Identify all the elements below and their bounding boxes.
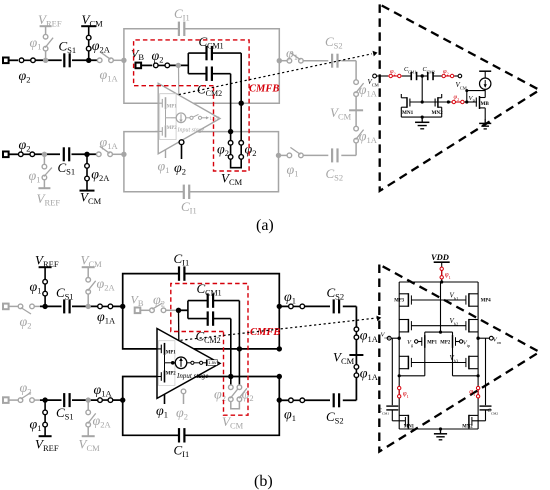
svg-text:MP1: MP1 xyxy=(166,350,176,355)
node on top output (b) xyxy=(237,346,242,351)
switch phi2 gray top input (b) xyxy=(18,304,40,330)
inset transistor MN1 (a) xyxy=(401,94,413,117)
node box edge (b top) xyxy=(120,304,125,309)
inset feedback drop right (b) xyxy=(485,338,487,405)
node Vref junction (a top) xyxy=(43,58,48,63)
node box edge (b bottom) xyxy=(120,397,125,402)
svg-text:MP2: MP2 xyxy=(167,126,177,131)
phi1 stub below op-amp (a) xyxy=(158,150,170,176)
inset Vb2 gate wire (b) xyxy=(411,317,466,327)
inset cascode NMOS left (b) xyxy=(399,356,411,370)
switch phi2 right CMFB (a) xyxy=(239,140,257,160)
svg-text:CMFB: CMFB xyxy=(250,327,280,338)
cap bus left (b) xyxy=(187,301,189,319)
wire CCM2 right drop (a) xyxy=(230,74,232,141)
inset input pair MP1 (b) xyxy=(407,335,438,348)
node CS1 right (b top) xyxy=(86,304,91,309)
op-amp U2 triangle (b) xyxy=(157,329,220,399)
wire CS1 to node (a top) xyxy=(72,59,98,61)
op-amp U1 triangle (a) xyxy=(158,83,220,154)
inset switch phi2 left red closed (a) xyxy=(388,68,402,78)
switch phi2 left CMFB (a) xyxy=(217,140,233,160)
input terminal bottom (a) xyxy=(3,152,18,158)
inset output node right (b) xyxy=(476,336,501,345)
node input (b top) xyxy=(42,304,47,309)
switch phi1A closed (b bottom) xyxy=(94,383,123,402)
inset transistor MN2 (a) xyxy=(432,94,444,117)
inset main wire left (a) xyxy=(368,74,389,87)
VB terminal gray (b) xyxy=(131,293,151,314)
inset source rail and ground (a) xyxy=(401,116,441,129)
node input (a bottom) xyxy=(84,152,89,157)
inset transistor MP3 (b) xyxy=(394,293,411,307)
svg-text:MP3: MP3 xyxy=(394,299,404,304)
node box right edge (a top) xyxy=(277,58,282,63)
capacitor CCM2 (b) xyxy=(188,311,231,345)
Vref source (b top) xyxy=(30,253,59,307)
capacitor CI1 top (b) xyxy=(174,251,190,281)
wire input to CS1 (a) xyxy=(35,59,62,61)
CMFB label (b) xyxy=(250,327,280,338)
zoom detail dashed triangle (b) xyxy=(379,265,539,452)
switch phi2 gray right CMFB (b) xyxy=(237,385,254,403)
capacitor CCM2 (a) xyxy=(188,67,230,99)
Vcm tap via phi2A (a bottom) xyxy=(80,154,111,206)
inset mid junction (a) xyxy=(417,74,428,102)
switch phi1 gray (a right top) xyxy=(286,47,303,64)
integrating capacitor loop box top (b) xyxy=(123,274,280,349)
integrating capacitor loop box bottom (a) xyxy=(124,132,279,192)
inset capacitor CCM1 (a) xyxy=(404,66,417,80)
inset MP2 drain fold (b) xyxy=(453,348,480,378)
inset MB diode wire (a) xyxy=(465,89,485,102)
node box right edge output level (b bottom) xyxy=(277,374,282,379)
zoom leader dotted line (b) xyxy=(181,316,382,341)
switch phi1A gray open (a top) xyxy=(97,52,124,83)
inset top rail (b) xyxy=(399,280,478,283)
svg-text:MP1: MP1 xyxy=(167,105,177,110)
inset feedback drop left (b) xyxy=(391,338,393,405)
wire CCM2 right drop (b) xyxy=(230,319,232,386)
capacitor CS2 (a top) xyxy=(303,34,356,68)
inset gate bus (a) xyxy=(410,100,451,103)
input terminal top (b) xyxy=(3,304,18,310)
svg-text:MP2: MP2 xyxy=(166,371,176,376)
node box edge (a top) xyxy=(121,58,126,63)
inset switch phi1 left red (b) xyxy=(398,386,409,399)
switch phi2 gray left CMFB (b) xyxy=(214,385,238,403)
svg-text:MN1: MN1 xyxy=(402,110,414,116)
node box right edge output level (b top) xyxy=(277,346,282,351)
Vcm return U-wire gray (b) xyxy=(222,402,244,431)
capacitor CS2 (a bottom) xyxy=(303,148,356,182)
svg-text:MN2: MN2 xyxy=(432,110,444,116)
wire corner down (a right) xyxy=(355,61,357,80)
svg-text:(b): (b) xyxy=(254,473,273,490)
switch phi2 bottom input (a) xyxy=(18,138,36,157)
inset current source (a) xyxy=(479,71,491,97)
switch phi1 (b right top) xyxy=(284,290,305,309)
wire CS1 to phi1A (b top) xyxy=(72,305,98,307)
input stage label (a) xyxy=(177,128,205,134)
node on bottom output (a) xyxy=(228,129,233,134)
CMFB dashed red box (b) xyxy=(171,284,248,416)
bias switch in op-amp (b) xyxy=(187,360,218,367)
wire CCM1 right drop (b) xyxy=(238,301,240,386)
inset transistor MP4 (b) xyxy=(466,293,491,307)
inset input pair MP2 (b) xyxy=(440,335,470,348)
switch phi1A (b right upper) xyxy=(354,326,379,344)
Vcm tap (b right) xyxy=(333,340,363,366)
inset MP1 drain fold (b) xyxy=(398,348,425,378)
capacitor CCM1 (a) xyxy=(188,34,241,60)
inset cascode PMOS right (b) xyxy=(466,319,478,333)
inset switch phi1 right red (b) xyxy=(469,386,480,399)
capacitor CI1 bottom (b) xyxy=(174,428,190,459)
capacitor CS2 (b bottom) xyxy=(305,393,357,425)
sub-figure label (b) xyxy=(254,473,273,490)
inset MB ground (a) xyxy=(479,108,491,129)
wire input node to CS1 (b top) xyxy=(40,305,62,307)
inset transistor MN2 (b) xyxy=(462,415,478,430)
Vcm tap gray phi2A (b top) xyxy=(81,253,116,307)
inset Vb1 gate wire (b) xyxy=(411,292,466,302)
inset switch phi2 gate red closed (a) xyxy=(451,94,477,104)
VB terminal (a) xyxy=(131,47,152,69)
inset VDD supply (b) xyxy=(431,252,450,266)
inset Vb3 gate wire (b) xyxy=(411,354,466,364)
capacitor CS1 (b bottom) xyxy=(56,393,74,421)
input stage grouping box (a) xyxy=(160,94,176,140)
switch phi1 gray (a bottom) xyxy=(29,154,52,184)
inset switch phi1 VDD red (b) xyxy=(440,266,451,282)
transistor MP2 in op-amp (a) xyxy=(155,118,177,138)
node input (a top) xyxy=(86,58,91,63)
switch phi1A gray (a right lower) xyxy=(354,126,378,145)
wire down to CS2 (b right) xyxy=(355,378,357,401)
svg-text:MP1: MP1 xyxy=(427,340,437,345)
inset wire right end (a) xyxy=(455,74,467,90)
node CS1 right (b bottom) xyxy=(86,397,91,402)
inset capacitor CCM2 (a) xyxy=(423,66,442,80)
inset switch phi2 right red closed (a) xyxy=(442,68,455,78)
svg-text:MB: MB xyxy=(481,101,490,107)
wire input node to CS1 (b bottom) xyxy=(40,399,62,401)
integrating capacitor loop box top (a) xyxy=(124,29,279,103)
Vcm return U-wire (a) xyxy=(221,159,243,187)
inset transistor MN1 (b) xyxy=(399,415,414,430)
zoom detail dashed triangle (a) xyxy=(380,4,540,191)
capacitor CS2 (b top) xyxy=(305,285,357,313)
integrating capacitor loop box bottom (b) xyxy=(123,377,280,436)
Vref source (b bottom) xyxy=(30,400,59,453)
current source in op-amp (a) xyxy=(171,113,186,123)
cap bus left (a) xyxy=(187,53,189,74)
inset tail wire (b) xyxy=(425,282,453,336)
transistor MP1 in op-amp (a) xyxy=(155,97,177,118)
wire corner down (b right) xyxy=(355,306,357,329)
node VB junction (b) xyxy=(176,308,188,313)
svg-text:1.5V: 1.5V xyxy=(210,117,220,122)
inset capacitor CCM1 (b) xyxy=(379,406,406,421)
switch phi2 VB (a) xyxy=(152,49,171,68)
switch phi1 gray (a right bottom) xyxy=(279,147,304,178)
svg-text:(a): (a) xyxy=(256,217,274,234)
inset bottom rail and ground (b) xyxy=(399,427,478,439)
node VB junction (a) xyxy=(170,63,189,68)
CMFB dashed red box (a) xyxy=(134,40,250,171)
inset capacitor CCM2 (b) xyxy=(472,406,498,421)
inset cascode PMOS left (b) xyxy=(399,319,411,333)
switch phi1A gray (a right upper) xyxy=(354,80,378,99)
sense wire to op-amp input (b) xyxy=(178,311,180,340)
node Vref junction (a bottom) xyxy=(42,152,47,157)
capacitor CS1 (a bottom) xyxy=(58,147,76,176)
inset wire to CCM1 (a) xyxy=(402,75,411,77)
switch phi1A closed (b top) xyxy=(97,304,123,325)
svg-text:VDD: VDD xyxy=(431,252,449,262)
Vcm tap gray phi2A (b bottom) xyxy=(79,400,112,453)
node box edge (a bottom) xyxy=(121,152,126,157)
switch phi1A gray open (a bottom) xyxy=(97,136,124,157)
current source in op-amp (b) xyxy=(171,357,187,369)
svg-text:MP4: MP4 xyxy=(481,299,491,304)
svg-text:MP2: MP2 xyxy=(440,340,450,345)
Vref source gray (a top) xyxy=(38,12,62,35)
inset transistor MB (a) xyxy=(469,95,490,109)
bias switch in op-amp (a) xyxy=(186,114,220,122)
node box right edge input level (b bottom) xyxy=(277,397,282,402)
node box right edge (a bottom) xyxy=(276,153,281,158)
inset right bus (b) xyxy=(477,282,479,429)
capacitor CS1 (a top) xyxy=(59,39,77,68)
wire CCM1 right drop (a) xyxy=(240,53,242,141)
node box right edge input level (b top) xyxy=(277,304,282,309)
inset cascode NMOS right (b) xyxy=(466,356,478,370)
wire out to phi1 (b top) xyxy=(279,305,288,307)
CMFB label (a) xyxy=(249,84,279,95)
node input (b bottom) xyxy=(42,397,47,402)
svg-text:Input stage: Input stage xyxy=(176,372,208,380)
input stage label (b) xyxy=(176,372,208,380)
phi1 terminal below op-amp (b) xyxy=(156,394,168,419)
wire down to CS2 (a right) xyxy=(355,143,357,156)
transistor MP1 in op-amp (b) xyxy=(154,343,176,363)
svg-text:1.5V: 1.5V xyxy=(208,360,217,365)
input terminal bottom (b) xyxy=(3,397,18,403)
capacitor CI1 top (a) xyxy=(174,6,190,36)
wire CS1 to node (a bottom) xyxy=(72,153,98,155)
input terminal top (a) xyxy=(3,58,18,64)
wire out to phi1 (a top) xyxy=(279,60,287,62)
sub-figure label (a) xyxy=(256,217,274,234)
input stage grouping box (b) xyxy=(159,341,175,386)
svg-text:Input stage: Input stage xyxy=(177,128,205,134)
inset left bus (b) xyxy=(398,282,400,429)
phi2 bias terminal below op-amp (a) xyxy=(174,140,186,177)
switch phi1A (b right lower) xyxy=(354,364,379,382)
Vcm tap via phi2A (a top) xyxy=(81,12,111,60)
transistor MP2 in op-amp (b) xyxy=(154,363,176,383)
sense wire to op-amp input (a) xyxy=(178,66,180,95)
Vcm tap (a right) xyxy=(330,96,363,126)
switch phi2 top input (a) xyxy=(19,58,37,85)
wire CS1 to phi1A (b bottom) xyxy=(72,399,98,401)
zoom leader dotted line (a) xyxy=(179,51,378,95)
node on bottom output (b) xyxy=(228,374,233,379)
switch phi1 gray (a top) xyxy=(30,34,54,58)
Vref source gray (a bottom) xyxy=(37,180,61,208)
capacitor CS1 (b top) xyxy=(56,285,74,313)
wire input to CS1 (a bottom) xyxy=(34,153,60,155)
switch phi2 gray bottom input (b) xyxy=(18,381,40,402)
inset output node left (b) xyxy=(381,332,401,341)
node on top output (a) xyxy=(239,101,244,106)
capacitor CCM1 (b) xyxy=(188,281,240,308)
switch phi1 (b right bottom) xyxy=(279,398,305,423)
capacitor CI1 bottom (a) xyxy=(181,185,197,216)
switch phi2 gray VB (b) xyxy=(150,293,179,313)
svg-text:CMFB: CMFB xyxy=(249,84,279,95)
phi2 gray stub below op-amp (b) xyxy=(176,389,188,421)
